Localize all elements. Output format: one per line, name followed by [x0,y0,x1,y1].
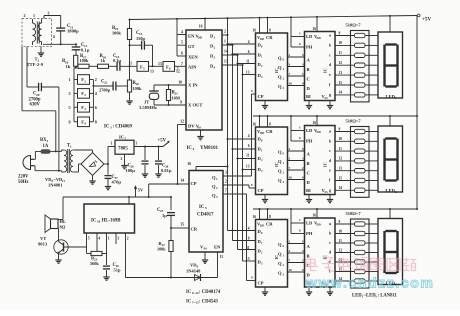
svg-text:3: 3 [261,169,263,173]
svg-text:4: 4 [181,30,183,34]
svg-text:2700p: 2700p [99,88,111,93]
svg-text:100k: 100k [133,86,143,91]
svg-text:22: 22 [104,81,108,85]
svg-text:2700p: 2700p [29,97,41,102]
svg-text:Q: Q [278,75,282,80]
svg-text:0: 0 [261,45,263,49]
svg-text:1: 1 [68,77,70,82]
svg-text:1: 1 [261,55,263,59]
svg-text:IC: IC [323,68,328,73]
svg-text:3: 3 [302,249,304,253]
svg-text:100μ: 100μ [126,168,136,173]
svg-text:13: 13 [150,70,154,74]
svg-text:9: 9 [251,183,253,187]
svg-text:1A: 1A [43,144,49,149]
svg-text:2: 2 [283,171,285,175]
svg-text:A: A [307,244,311,249]
svg-text:7: 7 [177,68,179,72]
svg-text:IC: IC [119,134,124,139]
svg-text:d: d [329,158,332,163]
svg-text:470μ: 470μ [112,180,122,185]
svg-text:9: 9 [180,100,182,104]
svg-text:CP: CP [258,188,264,193]
svg-text:3: 3 [283,86,285,90]
svg-text:6: 6 [299,136,301,140]
svg-text:11: 11 [246,246,250,250]
svg-text:SS: SS [325,96,329,100]
svg-text:1: 1 [108,237,110,241]
svg-text:8: 8 [269,123,271,127]
svg-text:6: 6 [181,51,183,55]
svg-text:6: 6 [95,105,97,110]
svg-text:10: 10 [339,229,343,233]
svg-text:YM8101: YM8101 [200,146,219,151]
svg-text:B: B [307,254,310,259]
svg-text:2: 2 [84,93,86,97]
svg-text:7805: 7805 [118,146,128,151]
svg-text:Q: Q [278,56,282,61]
svg-text:DD: DD [317,36,321,40]
svg-text:1: 1 [299,126,301,130]
svg-text:Q: Q [278,84,282,89]
svg-text:3: 3 [225,171,227,175]
svg-text:2: 2 [214,46,216,50]
svg-text:PH: PH [306,45,313,50]
svg-text:CP: CP [258,94,264,99]
svg-text:16: 16 [187,162,191,166]
svg-text:10: 10 [289,81,293,85]
svg-text:DD: DD [260,37,264,41]
svg-text:JT: JT [144,100,149,105]
svg-text:7~13: 7~13 [192,301,199,305]
svg-text:SS: SS [325,190,329,194]
svg-text:c: c [329,148,331,153]
svg-text:7: 7 [289,72,291,76]
svg-text:3: 3 [283,180,285,184]
svg-text:CD4017: CD4017 [197,213,214,218]
svg-text:X IN: X IN [188,82,198,87]
svg-text:3: 3 [302,156,304,160]
svg-text:1μ: 1μ [162,213,167,218]
svg-text:9: 9 [251,276,253,280]
svg-text:510Ω×7: 510Ω×7 [346,211,362,216]
svg-text:Q: Q [278,169,282,174]
svg-text:3: 3 [214,56,216,60]
svg-text:2: 2 [289,147,291,151]
svg-text:+5V: +5V [422,17,431,23]
svg-text:3: 3 [216,195,218,199]
svg-text:5: 5 [302,147,304,151]
svg-text:9: 9 [339,220,341,224]
svg-text:IC: IC [199,205,205,210]
svg-text:11: 11 [62,179,65,183]
svg-text:9: 9 [251,89,253,93]
svg-text:10: 10 [289,268,293,272]
svg-text:6: 6 [248,144,250,148]
svg-text:15: 15 [339,176,343,180]
svg-text:D: D [307,86,311,91]
svg-text:2: 2 [216,186,218,190]
svg-text:1: 1 [111,142,113,146]
svg-text:f: f [329,178,331,183]
svg-text:8: 8 [95,119,97,124]
svg-text:XEN: XEN [188,54,198,59]
svg-text:LD: LD [306,128,313,133]
svg-text:0: 0 [261,139,263,143]
svg-text:9013: 9013 [38,242,48,247]
svg-text:IC: IC [186,290,192,295]
svg-text:C: C [307,171,310,176]
svg-text:0: 0 [283,244,285,248]
svg-text:15: 15 [180,223,184,227]
svg-text:a: a [329,221,331,226]
svg-text:510Ω×7: 510Ω×7 [346,119,362,124]
svg-text:TTF-2-9: TTF-2-9 [27,62,44,67]
svg-text:3: 3 [289,249,291,253]
svg-text:6: 6 [248,237,250,241]
svg-text:DD: DD [317,223,321,227]
svg-text:1: 1 [283,254,285,258]
svg-text:1: 1 [299,218,301,222]
svg-text:1: 1 [224,40,226,44]
svg-text:: LAN811: : LAN811 [378,294,398,299]
svg-text:5: 5 [88,237,90,241]
svg-text:1: 1 [283,67,285,71]
svg-text:1k: 1k [66,64,71,69]
svg-text:0: 0 [261,231,263,235]
svg-text:3.58MHz: 3.58MHz [139,105,157,110]
svg-text:3: 3 [136,141,138,145]
svg-text:2: 2 [261,251,263,255]
svg-text:1N4148: 1N4148 [186,269,201,274]
svg-text:4: 4 [302,175,304,179]
svg-text:6: 6 [299,42,301,46]
svg-text:PH: PH [306,231,313,236]
svg-text:DD: DD [198,36,203,40]
svg-text:1: 1 [70,145,72,149]
svg-text:7: 7 [181,62,183,66]
svg-text:9: 9 [68,119,70,124]
svg-text:1: 1 [216,177,218,181]
svg-text:3: 3 [289,62,291,66]
svg-text:10: 10 [178,80,182,84]
svg-text:3: 3 [283,273,285,277]
svg-text:HL-169B: HL-169B [102,219,122,224]
svg-text:d: d [329,250,332,255]
svg-text:12: 12 [180,120,184,124]
svg-text:a: a [329,33,331,38]
svg-text:4: 4 [248,134,250,138]
svg-text:2: 2 [289,239,291,243]
svg-text:1: 1 [283,161,285,165]
svg-text:CR: CR [266,35,273,40]
svg-text:0.1μ: 0.1μ [113,58,121,63]
svg-text:13: 13 [246,165,250,169]
svg-text:4: 4 [248,227,250,231]
svg-text:10: 10 [339,137,343,141]
svg-text:12: 12 [339,61,343,65]
svg-text:14: 14 [339,186,343,190]
svg-text:2: 2 [127,237,129,241]
svg-text:1: 1 [84,79,86,83]
svg-text:16: 16 [312,27,316,31]
svg-text:2: 2 [261,64,263,68]
svg-text:5: 5 [302,53,304,57]
svg-text:11: 11 [246,154,250,158]
svg-text:CR: CR [191,227,198,232]
svg-text:8: 8 [269,215,271,219]
svg-text:2: 2 [121,157,123,161]
svg-text:2: 2 [302,258,304,262]
svg-text:g: g [329,92,331,97]
svg-text:13: 13 [220,255,224,259]
svg-text:www.cndzz.com: www.cndzz.com [305,275,434,291]
svg-text:12: 12 [339,248,343,252]
svg-text:10M: 10M [172,95,180,100]
svg-text:10: 10 [289,175,293,179]
svg-text:DD: DD [260,224,264,228]
svg-text:IC: IC [274,162,279,167]
svg-text:8Ω: 8Ω [60,225,66,230]
svg-text:5: 5 [143,66,145,70]
svg-text:16: 16 [312,121,316,125]
svg-text:0.1μ: 0.1μ [81,47,90,52]
svg-text:IC: IC [104,125,110,130]
svg-text:1k: 1k [101,58,106,63]
svg-text:3: 3 [302,62,304,66]
svg-text:LD: LD [306,221,313,226]
svg-text:4: 4 [53,34,55,39]
svg-text:16: 16 [252,29,256,33]
svg-text:1: 1 [47,139,49,143]
svg-text:4: 4 [84,122,86,126]
svg-text:3: 3 [68,91,70,96]
svg-text:a: a [329,129,331,134]
svg-text:6: 6 [248,50,250,54]
svg-text:220V: 220V [18,175,29,180]
svg-text:4: 4 [98,237,100,241]
svg-text:Q: Q [278,178,282,183]
svg-text:4: 4 [193,147,195,151]
svg-text:C: C [307,263,310,268]
svg-text:7: 7 [225,189,227,193]
svg-text:IC: IC [186,300,192,305]
svg-text:2: 2 [289,53,291,57]
svg-text:5: 5 [302,239,304,243]
svg-text:5: 5 [181,41,183,45]
svg-text:15: 15 [339,81,343,85]
svg-text:6~12: 6~12 [192,291,199,295]
svg-text:2: 2 [302,166,304,170]
svg-text:10: 10 [97,220,101,224]
svg-text:510Ω×7: 510Ω×7 [346,23,362,28]
svg-text:: CD40174: : CD40174 [199,290,221,295]
svg-text:Q: Q [278,150,282,155]
svg-text:5: 5 [68,105,70,110]
svg-text:BI: BI [306,94,311,99]
svg-text:EN: EN [214,245,221,250]
svg-text:IC: IC [91,219,97,224]
svg-text:Q: Q [278,271,282,276]
svg-text:16: 16 [312,214,316,218]
svg-text:DD: DD [317,130,321,134]
svg-text:LD: LD [306,34,313,39]
svg-text:4: 4 [95,91,97,96]
svg-text:b: b [329,231,332,236]
svg-text:0.01μ: 0.01μ [161,168,172,173]
svg-text:1: 1 [261,241,263,245]
svg-text:0: 0 [283,152,285,156]
svg-text:2: 2 [24,13,26,18]
svg-text:IC: IC [274,255,279,260]
svg-text:11: 11 [246,60,250,64]
svg-text:e: e [329,168,331,173]
svg-text:15: 15 [339,267,343,271]
svg-text:b: b [329,42,332,47]
svg-text:7: 7 [289,258,291,262]
svg-text:13: 13 [339,167,343,171]
svg-text:b: b [329,138,332,143]
svg-text:4: 4 [214,66,216,70]
svg-text:VT: VT [40,236,46,241]
svg-text:2: 2 [261,158,263,162]
svg-text:630V: 630V [30,103,41,108]
svg-text:16: 16 [199,25,203,29]
svg-text:BI: BI [306,188,311,193]
svg-text:B: B [307,67,310,72]
svg-text:1: 1 [214,36,216,40]
svg-text:CR: CR [266,222,273,227]
svg-text:51p: 51p [114,268,121,273]
svg-text:CR: CR [266,129,273,134]
svg-text:6: 6 [169,66,171,70]
svg-text:: CD4069: : CD4069 [113,125,133,130]
svg-text:D: D [307,180,311,185]
svg-text:11: 11 [339,51,343,55]
svg-text:1N4001: 1N4001 [48,183,62,188]
svg-text:AIN: AIN [188,64,197,69]
svg-text:g: g [329,187,331,192]
svg-text:3: 3 [261,262,263,266]
svg-text:6: 6 [299,229,301,233]
svg-text:1: 1 [261,149,263,153]
svg-text:14: 14 [339,91,343,95]
svg-text:3: 3 [48,11,50,16]
svg-text:16: 16 [252,123,256,127]
svg-text:C: C [307,77,310,82]
svg-text:5: 5 [205,206,207,210]
svg-text:CP: CP [258,281,264,286]
svg-text:13: 13 [246,257,250,261]
svg-text:IC: IC [323,162,328,167]
svg-text:13: 13 [246,71,250,75]
svg-text:SS: SS [204,247,208,251]
svg-text:560k: 560k [90,261,99,266]
svg-text:10: 10 [339,41,343,45]
svg-text:100k: 100k [157,247,166,252]
svg-text:11: 11 [339,147,343,151]
svg-text:7: 7 [289,166,291,170]
svg-text:A: A [307,58,311,63]
svg-text:SS: SS [198,126,202,130]
svg-text:100k: 100k [112,31,122,36]
svg-text:1: 1 [33,13,35,18]
svg-text:2: 2 [95,77,97,82]
svg-text:3: 3 [261,75,263,79]
svg-text:8: 8 [269,29,271,33]
svg-text:4: 4 [302,81,304,85]
svg-text:c: c [329,240,331,245]
svg-text:IC: IC [274,68,279,73]
svg-text:11: 11 [128,62,132,66]
svg-text:2: 2 [302,72,304,76]
svg-text:+5V: +5V [158,139,167,144]
svg-text:3: 3 [289,156,291,160]
svg-text:11: 11 [339,239,343,243]
svg-text:16: 16 [252,215,256,219]
svg-text:50Hz: 50Hz [18,180,28,185]
svg-text:c: c [329,52,331,57]
svg-text:5V: 5V [138,188,144,193]
svg-text:DD: DD [260,131,264,135]
svg-text:A: A [307,152,311,157]
svg-text:GT: GT [188,44,195,49]
svg-text:3: 3 [117,237,119,241]
svg-text:13: 13 [158,62,162,66]
svg-text:B: B [307,161,310,166]
svg-text:14: 14 [180,179,184,183]
svg-text:20: 20 [36,93,40,97]
svg-text:1800p: 1800p [67,29,79,34]
svg-text:2: 2 [283,77,285,81]
svg-text:9: 9 [339,127,341,131]
svg-text:f: f [329,82,331,87]
svg-text:0: 0 [283,58,285,62]
svg-text:Q: Q [278,242,282,247]
svg-text:4: 4 [248,40,250,44]
svg-text:Q: Q [278,261,282,266]
svg-text:CP: CP [191,181,197,186]
svg-text:2: 2 [283,263,285,267]
svg-text:e: e [329,72,331,77]
svg-text:X OUT: X OUT [188,102,202,107]
svg-text:: CD4543: : CD4543 [199,300,219,305]
svg-text:4: 4 [302,268,304,272]
svg-text:12: 12 [339,157,343,161]
svg-text:9: 9 [339,31,341,35]
svg-text:3: 3 [84,107,86,111]
svg-text:PH: PH [306,139,313,144]
svg-text:2: 2 [224,30,226,34]
svg-text:d: d [329,62,332,67]
svg-text:2: 2 [225,180,227,184]
svg-text:100k: 100k [80,58,90,63]
svg-text:13: 13 [339,71,343,75]
svg-text:150p: 150p [136,36,146,41]
svg-text:1: 1 [299,32,301,36]
